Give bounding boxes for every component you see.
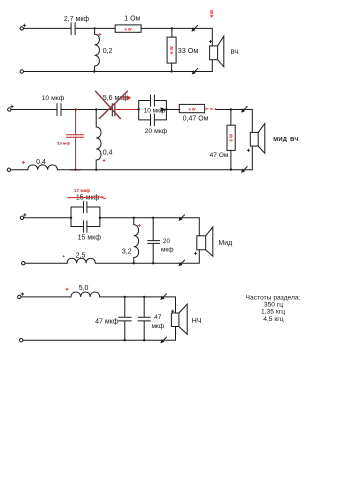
resistor R3 0,47 Ом	[179, 104, 204, 112]
inductor L2 0,4 (vertical)	[96, 110, 101, 170]
svg-text:НЧ: НЧ	[192, 318, 202, 325]
wire top rail mid sec1	[75, 27, 115, 29]
node L1 bottom	[93, 70, 95, 72]
red dashed wire after R3	[206, 108, 216, 110]
svg-text:6 W: 6 W	[188, 106, 195, 111]
node box right with arrow	[161, 107, 168, 111]
plus sign sec2	[11, 105, 14, 108]
wire to speaker sec2	[216, 110, 253, 133]
red dot sec3	[63, 255, 65, 257]
svg-text:1 Ом: 1 Ом	[124, 16, 140, 23]
capacitor C10 47 мкф (shunt)	[138, 297, 150, 340]
svg-text:6 W: 6 W	[124, 26, 131, 31]
switch arrow sec4 top	[160, 294, 166, 300]
inductor L3 0,4 (bottom rail)	[28, 165, 58, 170]
svg-text:Мид: Мид	[218, 240, 232, 247]
svg-text:1,35 кгц: 1,35 кгц	[261, 309, 285, 316]
svg-text:2,7 мкф: 2,7 мкф	[64, 16, 90, 23]
switch arrow sec2 top	[241, 106, 247, 112]
node C8 top	[152, 217, 154, 219]
node R4 bottom	[230, 168, 232, 170]
svg-text:0,47 Ом: 0,47 Ом	[183, 115, 209, 122]
svg-text:0,4: 0,4	[103, 150, 113, 157]
inductor L5 2,5 (bottom rail)	[67, 258, 95, 263]
wire top rail left sec1	[24, 27, 72, 29]
red shunt wire	[75, 110, 77, 170]
plus sign sec3	[24, 214, 27, 217]
node R4 top	[230, 108, 232, 110]
terminal minus (sec1 bottom)	[20, 70, 23, 73]
wire bottom rail sec2	[11, 146, 253, 170]
speaker SP1 plus	[209, 40, 211, 42]
switch arrow sec3 bottom	[178, 260, 184, 266]
resistor R2 33 Ом	[167, 37, 176, 63]
speaker SP3 (Мид)	[197, 227, 213, 256]
wire R2 top lead	[171, 28, 173, 37]
switch arrow sec1 top	[191, 25, 197, 31]
node box3 left	[70, 217, 72, 219]
wire R2 bottom lead	[171, 63, 173, 71]
capacitor C4 10 мкф plates	[151, 95, 155, 106]
svg-text:мкф: мкф	[161, 246, 174, 253]
wire top rail sec4	[100, 297, 176, 313]
capacitor C1 2,7 мкф	[71, 23, 75, 35]
svg-text:10 мкф: 10 мкф	[42, 95, 65, 102]
red mark sec4	[66, 288, 68, 290]
svg-text:5,6 мкф: 5,6 мкф	[57, 142, 70, 146]
svg-text:6 W: 6 W	[169, 46, 174, 53]
svg-text:47 мкф: 47 мкф	[95, 319, 119, 326]
node L2 bottom	[95, 169, 97, 171]
inductor L6 5,0 (top rail)	[71, 292, 100, 297]
capacitor C5 20 мкф plates	[151, 114, 155, 126]
svg-text:4,5 кгц: 4,5 кгц	[263, 316, 284, 323]
svg-text:2,5: 2,5	[76, 253, 86, 260]
terminal plus (sec3 top)	[20, 216, 23, 219]
node C8 bottom	[152, 262, 154, 264]
wire R4 top lead	[230, 110, 232, 126]
node C9 top	[124, 296, 126, 298]
red mark sec2 bottom	[22, 161, 24, 163]
wire bottom rail sec1	[24, 60, 213, 72]
node box3 right	[99, 217, 101, 219]
node C10 top	[143, 296, 145, 298]
svg-text:МИД ВЧ: МИД ВЧ	[273, 137, 299, 143]
svg-text:0,2: 0,2	[103, 48, 113, 55]
red rail overlay	[71, 169, 81, 171]
switch arrow sec3 top	[178, 215, 184, 221]
terminal minus (sec3 bottom)	[22, 262, 25, 265]
capacitor C6 plates	[84, 202, 87, 213]
terminal plus (sec1 top)	[20, 27, 23, 30]
red mark at L2	[103, 159, 105, 161]
wire top rail sec2 (cap to node)	[61, 109, 96, 111]
svg-text:ВЧ: ВЧ	[231, 49, 239, 56]
svg-text:20: 20	[163, 238, 171, 245]
node L1 top	[93, 27, 95, 29]
plus sign sec1	[23, 24, 26, 27]
svg-text:15 мкф: 15 мкф	[78, 235, 102, 242]
node box left	[138, 108, 140, 110]
wire top rail (node to C3)	[96, 109, 112, 111]
speaker SP4 (НЧ)	[171, 304, 187, 334]
capacitor C7 plates	[84, 221, 87, 232]
terminal plus (sec4 top)	[18, 295, 21, 298]
inductor L1 0,2	[95, 28, 100, 71]
node R2 bottom	[170, 70, 172, 72]
red node bottom	[74, 169, 76, 171]
terminal minus (sec2 bottom)	[7, 168, 10, 171]
svg-text:6 W: 6 W	[229, 134, 234, 141]
svg-text:17 мкф: 17 мкф	[74, 187, 90, 193]
wire top rail right sec1	[141, 28, 212, 46]
switch arrow sec4 bottom	[160, 337, 166, 343]
red mark top right	[210, 10, 214, 18]
wire box to R3	[166, 109, 179, 111]
svg-text:Частоты раздела:: Частоты раздела:	[246, 294, 301, 301]
red node	[74, 108, 77, 111]
terminal plus (sec2 top)	[8, 108, 11, 111]
resistor R4 47 Ом	[227, 125, 235, 150]
resistor R1 1 Ом	[115, 25, 141, 32]
parallel cap box C6/C7	[71, 207, 100, 227]
red strike line	[68, 197, 106, 199]
terminal minus (sec4 bottom)	[20, 339, 23, 342]
wire bottom rail sec4	[23, 327, 176, 341]
speaker SP2 (МИД ВЧ)	[250, 124, 264, 154]
switch arrow sec1 bottom	[192, 68, 198, 74]
wire R4 bottom lead	[230, 150, 232, 169]
speaker SP3 plus	[194, 252, 196, 254]
red mark at L1	[99, 33, 101, 35]
crossover frequencies note	[246, 294, 301, 323]
wire top rail left sec3	[24, 217, 71, 219]
svg-text:3,2: 3,2	[122, 249, 132, 256]
node R2 top	[171, 27, 173, 29]
svg-text:5,0: 5,0	[79, 285, 89, 292]
svg-text:350 гц: 350 гц	[264, 302, 283, 309]
svg-text:20 мкф: 20 мкф	[145, 128, 168, 135]
node L4 top	[133, 217, 135, 219]
parallel cap box C4/C5	[139, 101, 167, 120]
plus sign sec4	[21, 293, 24, 296]
svg-text:47: 47	[154, 314, 162, 321]
svg-text:10 мкф: 10 мкф	[144, 108, 166, 115]
speaker SP4 plus	[172, 310, 174, 312]
red cross X over C3	[96, 91, 128, 118]
svg-text:0,4: 0,4	[36, 159, 46, 166]
svg-text:15 мкф: 15 мкф	[76, 195, 100, 202]
svg-text:33 Ом: 33 Ом	[178, 46, 199, 55]
node C9 bottom	[124, 339, 126, 341]
svg-text:47 Ом: 47 Ом	[210, 152, 229, 159]
capacitor C2 10 мкф	[57, 104, 61, 116]
red capacitor 5,6 мкф	[67, 135, 84, 137]
svg-text:8: 8	[210, 10, 213, 16]
inductor L4 3,2 (vertical)	[134, 218, 139, 263]
node C10 bottom	[143, 339, 145, 341]
wire top rail left sec4	[21, 296, 71, 298]
svg-text:мкф: мкф	[151, 323, 164, 330]
red mark at L4	[138, 224, 140, 226]
speaker SP2 plus	[247, 149, 249, 151]
wire top rail left sec2	[11, 109, 57, 111]
switch arrow sec2 bottom	[241, 167, 247, 173]
capacitor C9 47 мкф (shunt)	[119, 297, 132, 340]
node L2 top	[95, 108, 97, 110]
capacitor C8 20 мкф (shunt)	[148, 218, 160, 263]
red arrow glyph	[123, 95, 131, 100]
wire top rail sec3	[100, 218, 199, 236]
red wire C3 to C4 box	[115, 109, 139, 111]
speaker SP1 (ВЧ)	[210, 36, 224, 67]
node L4 bottom	[133, 262, 135, 264]
wire bottom rail sec3	[25, 250, 199, 263]
capacitor C3 5,6 мкф (crossed out)	[112, 104, 115, 117]
